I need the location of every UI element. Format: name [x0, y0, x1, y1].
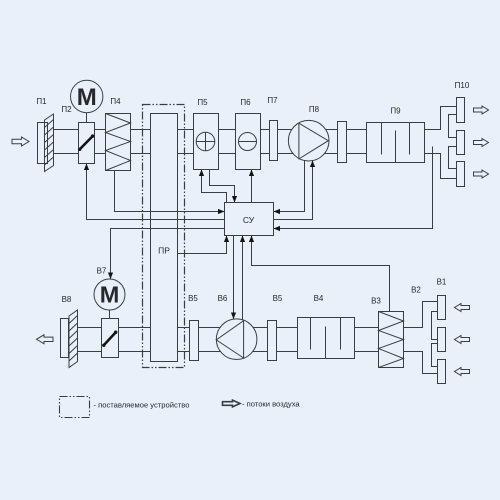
flow arrow П10 out 1 — [474, 106, 489, 114]
wire duct П8-flex top — [326, 129, 338, 131]
wire СУ to П5 control — [202, 170, 227, 203]
fan П8 — [288, 120, 329, 161]
wire duct В5b-В4 top — [277, 327, 298, 329]
louver В8 grille — [69, 310, 78, 368]
fan В6 — [216, 319, 257, 360]
svg-text:В8: В8 — [62, 295, 72, 304]
svg-text:П5: П5 — [197, 98, 208, 107]
wire П9 to П10 riser top — [425, 107, 457, 130]
wire duct П1-П2 top — [54, 129, 79, 131]
wire duct В8-В7 bottom — [78, 351, 102, 353]
wire В3 to В1 riser bottom — [404, 352, 438, 374]
svg-text:П1: П1 — [36, 97, 47, 106]
wire duct П4-ПР bottom — [131, 153, 151, 155]
wire В3 to В1 riser top — [404, 302, 438, 328]
wire П10 step 1 — [449, 115, 457, 138]
wire П9 to П10 riser bottom — [425, 154, 457, 179]
svg-text:В7: В7 — [97, 267, 107, 276]
connector В5 right — [268, 321, 277, 361]
svg-text:П4: П4 — [110, 97, 121, 106]
louver П1 frame — [38, 123, 48, 164]
wire СУ to П2 control — [87, 164, 225, 220]
flow arrow В1 in 2 — [455, 336, 470, 344]
wire duct flex-П9 bottom — [347, 153, 367, 155]
wire duct П7-П8 top — [278, 129, 293, 131]
damper В7 — [102, 319, 119, 358]
wire duct П4-ПР top — [131, 129, 151, 131]
heat exchanger В3 — [379, 312, 404, 368]
wire duct В8-В7 top — [78, 327, 102, 329]
wire В1 step 1 — [432, 312, 438, 340]
wire duct В6-В5b top — [253, 327, 267, 329]
legend flow arrow — [223, 400, 241, 407]
svg-text:П2: П2 — [61, 105, 72, 114]
svg-text:- поставляемое устройство: - поставляемое устройство — [94, 401, 190, 410]
wire duct ПР-П5 bottom — [178, 153, 194, 155]
wire П5 sensor to СУ — [210, 170, 235, 203]
supplied device boundary (dash-dot box) — [143, 105, 185, 368]
svg-text:- потоки воздуха: - потоки воздуха — [242, 400, 300, 409]
svg-text:В3: В3 — [371, 297, 381, 306]
wire duct В5a-В6 bottom — [199, 351, 221, 353]
svg-text:В1: В1 — [437, 278, 447, 287]
louver П1 grille — [45, 114, 54, 172]
wire СУ to В6 control — [233, 236, 235, 320]
wire duct ПР-В5a top — [178, 327, 190, 329]
wire duct В4-В3 bottom — [355, 351, 379, 353]
silencer П9 — [367, 123, 425, 163]
svg-text:М: М — [100, 282, 120, 308]
svg-text:П8: П8 — [309, 105, 320, 114]
motor M В7 — [94, 279, 125, 310]
svg-text:П10: П10 — [455, 81, 470, 90]
outlet П10 box 1 — [457, 98, 465, 123]
wire duct В4-В3 top — [355, 327, 379, 329]
heat exchanger П4 — [106, 114, 131, 171]
cooler П6 — [236, 114, 261, 170]
wire duct П6-П7 top — [261, 129, 270, 131]
inlet В1 box 2 — [438, 328, 446, 352]
damper П2 — [79, 123, 95, 164]
flow arrow П10 out 2 — [474, 139, 489, 147]
unit ПР — [151, 114, 178, 362]
wire П4 sensor to СУ — [115, 171, 225, 212]
inlet В1 box 1 — [438, 296, 446, 320]
inlet В1 box 3 — [438, 360, 446, 384]
svg-text:ПР: ПР — [158, 246, 170, 256]
motor M П2 — [71, 80, 103, 112]
flow arrow В1 in 3 — [455, 368, 470, 376]
wire duct ПР-П5 top — [178, 129, 194, 131]
wire duct В6-В5b bottom — [253, 351, 268, 353]
svg-text:В5: В5 — [273, 294, 283, 303]
wire duct В7-ПР top — [119, 327, 151, 329]
flow arrow П10 out 3 — [474, 170, 489, 178]
control unit СУ — [225, 203, 274, 236]
wire СУ to П6 control — [251, 170, 253, 203]
wire duct П2-П4 bottom — [95, 153, 106, 155]
outlet П10 box 2 — [457, 131, 465, 155]
wire СУ to В7 control — [111, 229, 225, 280]
svg-text:В6: В6 — [218, 294, 228, 303]
wire duct flex-П9 top — [347, 129, 367, 131]
flexible connector before П9 — [338, 122, 347, 163]
wire duct П2-П4 top — [95, 129, 106, 131]
svg-text:П7: П7 — [267, 96, 278, 105]
legend supplied device box — [60, 397, 90, 418]
wire duct В5b-В4 bottom — [277, 351, 298, 353]
wire П10 duct sensor to СУ — [274, 147, 433, 229]
wire П8 sensor to СУ — [274, 161, 305, 212]
heater П5 — [194, 114, 219, 170]
connector П7 — [270, 121, 278, 161]
flow arrow В1 in 1 — [455, 304, 470, 312]
flow arrow exhaust outlet — [37, 335, 54, 344]
svg-text:СУ: СУ — [243, 215, 255, 225]
svg-text:П6: П6 — [240, 98, 251, 107]
flow arrow supply inlet — [12, 137, 29, 146]
wire duct П1-П2 bottom — [54, 153, 79, 155]
wire duct П5-П6 bottom — [219, 153, 236, 155]
svg-text:В5: В5 — [188, 294, 198, 303]
wire duct П5-П6 top — [219, 129, 236, 131]
wire П10 step 2 — [449, 147, 457, 169]
connector В5 left — [190, 321, 199, 361]
wire motor stem В7 — [109, 310, 111, 319]
wire В3 sensor to СУ — [252, 236, 390, 312]
wire duct П8-flex bottom — [325, 153, 338, 155]
wire duct ПР-В5a bottom — [178, 351, 190, 353]
svg-text:В2: В2 — [411, 286, 421, 295]
wire motor stem П2 — [86, 113, 88, 123]
wire В6 sensor to СУ — [242, 236, 244, 320]
wire duct В5a-В6 top — [199, 327, 221, 329]
wire СУ to П8 control — [274, 161, 313, 220]
silencer В4 — [298, 318, 355, 359]
svg-text:М: М — [77, 84, 97, 111]
wire duct П6-П7 bottom — [261, 153, 270, 155]
svg-text:В4: В4 — [314, 294, 324, 303]
louver В8 frame — [61, 319, 69, 358]
wire duct В7-ПР bottom — [119, 351, 151, 353]
outlet П10 box 3 — [457, 162, 465, 187]
wire duct П7-П8 bottom — [278, 153, 293, 155]
wire В1 step 2 — [432, 344, 438, 367]
wire ПР sensor to СУ — [178, 236, 227, 254]
svg-text:П9: П9 — [390, 107, 401, 116]
